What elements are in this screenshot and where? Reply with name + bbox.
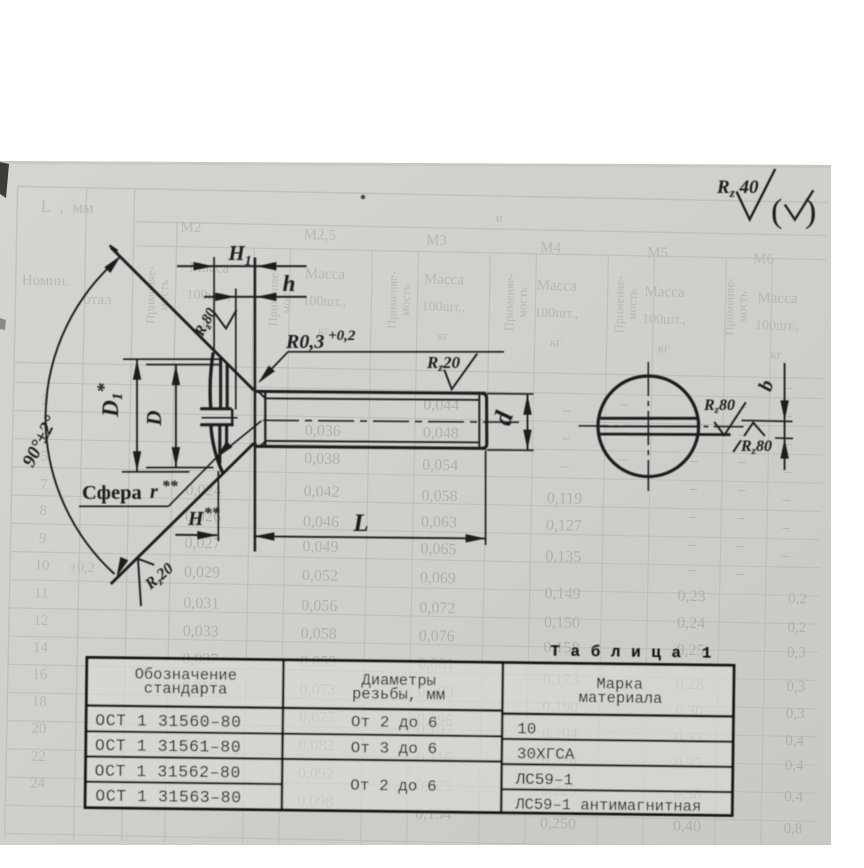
slot mid thin line — [202, 417, 238, 419]
svg-text:–: – — [737, 454, 746, 470]
svg-text:Масса: Масса — [305, 266, 346, 283]
svg-text:L , мм: L , мм — [41, 197, 95, 217]
svg-text:0,4: 0,4 — [784, 789, 804, 805]
svg-text:±0,2: ±0,2 — [69, 560, 94, 576]
svg-text:М5: М5 — [647, 245, 668, 261]
svg-text:0,24: 0,24 — [677, 615, 705, 633]
H dimension line — [175, 534, 217, 536]
svg-text:0,058: 0,058 — [301, 625, 337, 643]
svg-text:М3: М3 — [426, 233, 447, 249]
svg-text:0,058: 0,058 — [421, 488, 457, 506]
svg-text:11: 11 — [34, 586, 49, 602]
svg-text:0,054: 0,054 — [422, 457, 458, 475]
D1 arrow down — [133, 451, 141, 471]
svg-text:16: 16 — [32, 667, 48, 683]
svg-text:0,3: 0,3 — [786, 679, 805, 695]
svg-text:100шт.,: 100шт., — [421, 299, 465, 315]
svg-text:0,063: 0,063 — [421, 514, 457, 532]
svg-text:Масса: Масса — [537, 278, 578, 295]
row line 1 col 3 — [502, 739, 733, 742]
svg-text:0,250: 0,250 — [540, 815, 576, 833]
arc upper arrowhead — [104, 256, 121, 274]
svg-text:0,4: 0,4 — [785, 733, 805, 749]
svg-text:0,072: 0,072 — [419, 600, 455, 618]
D arrow up — [172, 365, 180, 385]
upper 45deg cone construction line — [111, 248, 254, 391]
svg-text:М2: М2 — [180, 220, 201, 236]
svg-text:100шт.,: 100шт., — [755, 318, 799, 334]
svg-text:–: – — [736, 538, 745, 554]
svg-text:–: – — [618, 451, 627, 467]
R0,3 label shelf line — [288, 351, 504, 353]
shaft top thread line — [265, 398, 479, 400]
Rz80 roughness mark on countersink face — [214, 310, 237, 329]
head end view circle — [598, 376, 699, 477]
svg-text:кг: кг — [437, 328, 449, 343]
svg-text:–: – — [736, 510, 745, 526]
slot wall line lower A — [218, 425, 221, 464]
svg-text:мость: мость — [398, 284, 413, 316]
slot top chord — [600, 417, 696, 420]
H1 dimension line — [177, 265, 307, 267]
svg-text:ЛС59–1: ЛС59–1 — [514, 771, 573, 790]
slot floor extension line — [235, 289, 237, 410]
svg-text:резьбы, мм: резьбы, мм — [352, 685, 445, 704]
svg-text:20: 20 — [31, 721, 46, 737]
svg-text:0,40: 0,40 — [673, 818, 701, 836]
shaft centerline dash-dot — [263, 420, 524, 422]
shaft bottom thread line — [265, 441, 479, 443]
fillet top R0,3 — [254, 390, 257, 392]
d arrow up — [523, 395, 531, 415]
slot bottom line extended — [599, 433, 731, 436]
svg-text:От 3 до 6: От 3 до 6 — [351, 739, 438, 758]
svg-text:–: – — [689, 481, 698, 497]
svg-text:100шт.,: 100шт., — [642, 312, 686, 328]
svg-text:0,3: 0,3 — [786, 706, 805, 722]
dark smudge top-left corner — [0, 162, 9, 198]
svg-text:От 2 до 6: От 2 до 6 — [351, 713, 438, 732]
D1 bottom extension line — [122, 471, 190, 473]
svg-text:отал: отал — [83, 292, 112, 309]
H1 left arrow — [194, 262, 214, 270]
svg-text:материала: материала — [579, 689, 663, 708]
svg-text:0,127: 0,127 — [546, 517, 582, 535]
main drawing layer — [18, 169, 816, 606]
slot wall line upper A — [219, 357, 222, 409]
head crown bottom extension — [217, 471, 219, 541]
svg-text:100шт.,: 100шт., — [534, 306, 578, 322]
D1 arrow up — [133, 360, 141, 380]
R0,3 leader arrowhead — [258, 366, 275, 384]
svg-text:–: – — [561, 430, 570, 446]
head crown arc upper — [210, 353, 213, 409]
svg-text:D: D — [142, 410, 166, 426]
svg-text:Т а б л и ц а 1: Т а б л и ц а 1 — [550, 643, 712, 663]
svg-text:0,2: 0,2 — [787, 620, 806, 636]
row line 3 col 1 only — [85, 782, 282, 784]
svg-text:(: ( — [771, 193, 782, 230]
svg-text:0,042: 0,042 — [303, 483, 339, 501]
svg-text:Rz80: Rz80 — [703, 397, 735, 416]
svg-text:0,076: 0,076 — [419, 627, 455, 645]
svg-text:–: – — [781, 548, 790, 564]
svg-text:Масса: Масса — [757, 290, 798, 307]
svg-text:кг: кг — [550, 334, 562, 349]
row line 2 col 3 — [502, 764, 733, 767]
L right arrow — [466, 534, 486, 542]
svg-text:–: – — [688, 537, 697, 553]
svg-text:–: – — [560, 458, 569, 474]
b bottom extension tick — [775, 437, 793, 439]
Sfera radius leader — [169, 421, 262, 507]
svg-text:–: – — [620, 396, 629, 412]
svg-text:100шт.,: 100шт., — [302, 294, 346, 310]
b top extension line — [742, 420, 793, 421]
Rz40 check mark — [737, 169, 776, 220]
svg-text:10: 10 — [34, 558, 49, 574]
svg-text:): ) — [805, 193, 816, 230]
b arrow up — [780, 439, 788, 459]
svg-text:0,4: 0,4 — [785, 758, 805, 774]
fillet bottom R0,3 — [254, 443, 257, 447]
d bottom extension line — [487, 449, 534, 451]
D extension line top — [146, 364, 221, 366]
D arrow down — [172, 447, 180, 467]
svg-text:0,056: 0,056 — [301, 597, 337, 615]
svg-text:0,135: 0,135 — [545, 548, 581, 566]
svg-text:мость: мость — [845, 293, 860, 325]
svg-text:10: 10 — [517, 720, 536, 738]
vertical centerline — [647, 362, 649, 491]
svg-text:h: h — [283, 271, 296, 296]
svg-text:ЛС59–1 антимагнитная: ЛС59–1 антимагнитная — [514, 796, 701, 816]
svg-text:9: 9 — [39, 531, 47, 547]
d top extension line — [487, 393, 534, 395]
svg-text:ОСТ 1 31562–80: ОСТ 1 31562–80 — [94, 762, 241, 783]
header bottom line col 3 — [502, 714, 733, 717]
slot wall line lower B — [225, 425, 228, 450]
svg-text:7: 7 — [40, 477, 48, 493]
svg-text:0,049: 0,049 — [302, 538, 338, 556]
svg-text:0,149: 0,149 — [544, 585, 580, 603]
svg-text:кг: кг — [770, 347, 782, 362]
horizontal centerline — [579, 425, 745, 428]
svg-text:30ХГСА: 30ХГСА — [517, 745, 575, 764]
main table layer — [85, 637, 734, 816]
svg-text:Rz 40: Rz 40 — [716, 177, 759, 200]
Rz80 lower slash — [733, 440, 741, 452]
slot wall line upper B — [226, 364, 229, 409]
shaft left top chamfer — [259, 392, 266, 399]
Rz80 lower mark — [744, 423, 765, 436]
svg-text:Масса: Масса — [424, 272, 465, 289]
slot top edge — [200, 407, 231, 410]
svg-text:–: – — [687, 562, 696, 578]
H arrow — [197, 531, 217, 539]
svg-text:мость: мость — [515, 286, 530, 318]
label D1* — [94, 383, 126, 418]
b arrow down — [780, 400, 788, 420]
scanned paper sheet — [0, 161, 831, 845]
svg-text:Номин.: Номин. — [22, 272, 70, 289]
shaft end extension line — [485, 451, 487, 546]
lower 45deg cone construction line — [111, 443, 254, 584]
svg-text:кг: кг — [658, 340, 670, 355]
svg-text:0,052: 0,052 — [302, 567, 338, 585]
svg-text:М6: М6 — [753, 251, 775, 267]
svg-text:Rz80: Rz80 — [740, 438, 772, 457]
svg-text:18: 18 — [32, 694, 47, 710]
d arrow down — [523, 430, 531, 450]
svg-text:–: – — [782, 492, 791, 508]
svg-text:0,048: 0,048 — [423, 425, 459, 443]
svg-text:0,036: 0,036 — [305, 422, 341, 440]
svg-text:М4: М4 — [540, 240, 562, 256]
svg-text:–: – — [781, 520, 790, 536]
svg-text:Масса: Масса — [644, 284, 685, 301]
shaft right end inner line — [478, 394, 480, 448]
table cell background — [85, 657, 734, 815]
arc lower arrowhead — [117, 557, 129, 577]
svg-text:М2,5: М2,5 — [304, 227, 336, 244]
H1 right arrow — [256, 262, 276, 270]
svg-text:мость: мость — [625, 289, 640, 321]
svg-text:0,2: 0,2 — [788, 591, 807, 607]
head crown arc lower — [211, 425, 223, 473]
svg-text:–: – — [735, 566, 744, 582]
Rz20 roughness mark lower left — [138, 559, 154, 606]
h right arrow — [256, 293, 276, 301]
svg-text:0,033: 0,033 — [183, 623, 219, 641]
construction line end tick — [110, 246, 118, 252]
table outer border — [85, 657, 734, 815]
svg-text:Rz20: Rz20 — [426, 353, 461, 374]
shaft left end vertical — [264, 393, 266, 448]
svg-text:–: – — [782, 464, 791, 480]
svg-text:0,3: 0,3 — [787, 645, 806, 661]
row line 3 col 3 — [501, 789, 732, 792]
svg-text:0,065: 0,065 — [420, 541, 456, 559]
crown top extension line — [213, 257, 215, 353]
slot inner line — [600, 425, 697, 427]
svg-text:14: 14 — [33, 640, 49, 656]
svg-text:0,031: 0,031 — [183, 595, 219, 613]
svg-text:ОСТ 1 31560–80: ОСТ 1 31560–80 — [95, 711, 242, 732]
head base extension line — [254, 258, 257, 552]
shaft bottom outer line — [256, 446, 486, 448]
svg-text:0,069: 0,069 — [420, 570, 456, 588]
column separator 2 — [501, 663, 503, 813]
shaft left bottom chamfer — [259, 441, 266, 448]
R0,3 leader line — [260, 352, 288, 382]
row line 2 cols 1-2 — [86, 756, 502, 761]
D1 dimension line — [136, 359, 138, 472]
slot floor step — [231, 409, 233, 425]
header bottom line cols 1-2 — [86, 705, 502, 710]
b dimension line — [784, 363, 786, 470]
svg-text:0,23: 0,23 — [677, 588, 705, 606]
svg-text:–: – — [737, 482, 746, 498]
svg-text:0,8: 0,8 — [783, 821, 802, 837]
svg-text:12: 12 — [33, 613, 48, 629]
svg-text:мость: мость — [735, 291, 750, 323]
shaft right end cap — [482, 393, 487, 448]
svg-text:стандарта: стандарта — [144, 680, 228, 699]
L dimension line — [254, 536, 485, 538]
svg-text:0,038: 0,038 — [304, 450, 340, 468]
shaft top outer line — [256, 391, 486, 393]
svg-text:24: 24 — [30, 776, 46, 792]
svg-text:–: – — [561, 402, 570, 418]
column separator 1 — [282, 660, 284, 810]
svg-text:Сфера: Сфера — [82, 482, 147, 504]
svg-text:8: 8 — [39, 503, 47, 519]
D dimension line — [175, 365, 177, 468]
Sfera label underline — [79, 505, 169, 507]
h left arrow — [215, 293, 235, 301]
L left arrow — [254, 532, 274, 540]
D bottom extension line — [146, 467, 214, 469]
svg-text:ОСТ 1 31561–80: ОСТ 1 31561–80 — [95, 736, 242, 757]
svg-text:От 2 до 6: От 2 до 6 — [350, 777, 437, 796]
90 degree dimension arc — [46, 258, 119, 574]
svg-text:Применяе-: Применяе- — [832, 280, 847, 338]
svg-text:–: – — [688, 509, 697, 525]
svg-text:22: 22 — [31, 749, 46, 765]
Sfera leader arrowhead — [216, 441, 233, 458]
h dimension line — [204, 296, 307, 298]
slot bottom edge — [200, 423, 233, 426]
row line 1 cols 1-2 — [86, 731, 502, 736]
svg-text:L: L — [352, 510, 368, 537]
svg-text:0,029: 0,029 — [184, 564, 220, 582]
svg-text:и: и — [496, 210, 503, 225]
svg-text:0,046: 0,046 — [303, 513, 339, 531]
svg-text:0,119: 0,119 — [547, 490, 583, 508]
d dimension line — [527, 394, 529, 450]
svg-text:ОСТ 1 31563–80: ОСТ 1 31563–80 — [95, 787, 242, 808]
D1 top extension line — [123, 358, 222, 360]
ghost bleed-through table layer — [5, 186, 862, 855]
svg-text:0,150: 0,150 — [544, 614, 580, 632]
